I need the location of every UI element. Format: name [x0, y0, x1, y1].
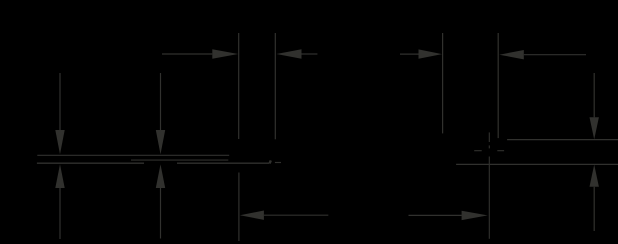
wire: lead middle surface line	[131, 159, 228, 161]
wire: extension line V4 at x=498.2	[497, 33, 499, 138]
wire: lead tip dash	[275, 162, 281, 164]
arrowhead: dim c2 up arrow	[156, 164, 165, 188]
wire: center line vertical short dash	[488, 145, 490, 148]
wire: top dimension tail between arrows	[302, 53, 318, 55]
wire: lead tip end face	[270, 160, 271, 163]
wire: extension line V2 at x=275.3	[274, 33, 276, 139]
wire: dim c2 lower extension line at x=160.5	[160, 188, 162, 239]
arrowhead: bottom dim left-pointing at V1	[240, 211, 264, 220]
arrowhead: right height dim up arrow	[590, 165, 599, 187]
wire: right height dim lower line at x=594.2	[593, 187, 595, 231]
arrowhead: top dim right-pointing at V1	[212, 49, 238, 58]
arrowhead: dim c1 down arrow	[55, 130, 64, 154]
wire: bottom dimension line left part	[264, 214, 328, 216]
wire: center line vertical segment 1	[488, 132, 490, 142]
wire: extension line V3 at x=442.6	[442, 33, 444, 133]
wire: center line horizontal dash right	[497, 150, 504, 152]
wire: right lead bottom surface line	[456, 163, 618, 165]
wire: lead top surface line	[37, 154, 229, 156]
wire: lead bottom surface line right segment	[177, 162, 269, 164]
wire: right height dim upper line at x=594.2	[593, 73, 595, 117]
arrowhead: top dim 2 left-pointing at V4	[499, 50, 524, 59]
arrowhead: right height dim down arrow	[590, 117, 599, 139]
wire: center line vertical segment 2	[488, 157, 490, 239]
arrowhead: dim c2 down arrow	[156, 130, 165, 154]
wire: lead bottom surface line left segment	[37, 162, 144, 164]
wire: dim c2 upper extension line at x=160.5	[160, 73, 162, 130]
wire: center line horizontal dash left	[474, 150, 482, 152]
arrowhead: top dim 2 right-pointing at V3	[419, 49, 443, 58]
wire: dim c1 lower extension line at x=60	[59, 188, 61, 239]
arrowhead: bottom dim right-pointing at centerline	[462, 211, 488, 220]
wire: top dimension 2 tail right	[524, 54, 586, 56]
wire: dim c1 upper extension line at x=60	[59, 73, 61, 130]
wire: top dimension tail left	[162, 53, 212, 55]
arrowhead: dim c1 up arrow	[55, 164, 64, 188]
wire: extension line V1 upper at x=238.7	[238, 33, 240, 139]
wire: top dimension 2 tail left	[400, 53, 419, 55]
wire: right lead top surface line	[507, 139, 618, 141]
arrowhead: top dim left-pointing at V2	[276, 49, 301, 58]
wire: extension line V1 lower at x=238.7	[238, 173, 240, 242]
wire: bottom dimension line right part	[409, 214, 462, 216]
